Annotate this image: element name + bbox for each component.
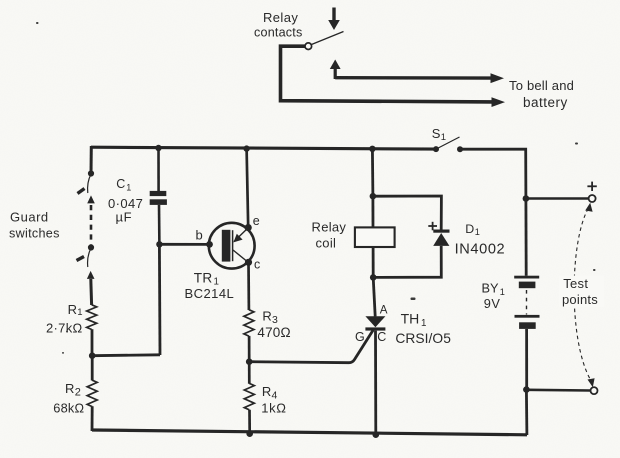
D1 cathode bar xyxy=(433,230,449,233)
svg-text:D: D xyxy=(465,222,474,236)
resistor R3 xyxy=(244,310,254,336)
R3 label xyxy=(257,309,290,341)
TR1 emitter arrow (PNP) xyxy=(233,234,242,243)
svg-text:C: C xyxy=(116,177,125,191)
svg-text:Guard: Guard xyxy=(10,210,49,225)
svg-text:BY: BY xyxy=(482,281,500,296)
svg-text:68kΩ: 68kΩ xyxy=(53,400,84,415)
wire junction to R4 xyxy=(248,362,251,384)
node lower test junction xyxy=(523,386,530,393)
node base junction xyxy=(156,241,162,247)
arrowhead up (switch 2) xyxy=(87,271,95,279)
gate wire to thyristor xyxy=(249,330,373,363)
svg-text:b: b xyxy=(196,228,203,243)
svg-text:switches: switches xyxy=(9,227,60,241)
node on top rail (emitter branch) xyxy=(243,145,249,151)
TH1 cathode bar xyxy=(365,327,385,330)
cathode wire to bottom rail xyxy=(374,331,377,435)
svg-text:1: 1 xyxy=(500,287,505,297)
wire C1 to base node xyxy=(158,205,161,244)
label Relay coil xyxy=(312,220,347,251)
wire from contact to left corner and down to lower arrow line xyxy=(281,46,494,102)
arc arrowhead bottom xyxy=(588,378,595,387)
S1 left terminal dot xyxy=(433,146,439,152)
wire R2 to bottom rail xyxy=(91,406,94,431)
R2 label xyxy=(53,381,84,416)
arrowhead up (switch 1) xyxy=(87,195,95,203)
svg-text:R: R xyxy=(262,384,271,399)
guard switch 2 tick xyxy=(77,257,85,261)
D1 label xyxy=(455,222,506,258)
svg-text:1: 1 xyxy=(126,182,131,192)
svg-text:1: 1 xyxy=(475,227,480,237)
guard switch 2 terminal dot xyxy=(88,244,94,250)
battery long plate 1 xyxy=(514,276,539,279)
svg-text:R: R xyxy=(68,302,77,317)
plus mark at D1 xyxy=(428,222,437,231)
guard switch 1 blade xyxy=(88,174,91,193)
svg-text:1: 1 xyxy=(441,132,446,143)
svg-text:e: e xyxy=(253,214,260,228)
wire R1 junction to R2 xyxy=(91,356,94,381)
diode D1 triangle xyxy=(433,233,449,246)
resistor R4 xyxy=(244,383,254,409)
resistor R1 xyxy=(87,305,97,330)
label Relay contacts xyxy=(254,10,303,40)
wire node to coil xyxy=(371,196,374,227)
relay contact pivot circle xyxy=(305,43,312,50)
battery inter-cell dashed link xyxy=(526,290,528,315)
wire S1 to right corner and down xyxy=(460,149,526,198)
svg-text:TH: TH xyxy=(401,311,420,327)
node TH1 bottom rail junction xyxy=(373,431,380,438)
up arrow on bell line xyxy=(330,60,341,80)
svg-text:R: R xyxy=(65,381,74,396)
guard switch 1 terminal dot xyxy=(88,170,94,176)
base wire xyxy=(159,243,209,246)
S1 right terminal dot xyxy=(457,146,463,152)
relay contact blade xyxy=(312,32,344,45)
node R3/R4 junction xyxy=(246,358,253,365)
node coil/diode top junction xyxy=(370,193,377,200)
svg-text:A: A xyxy=(380,304,388,317)
svg-text:2: 2 xyxy=(75,387,81,399)
svg-text:contacts: contacts xyxy=(254,26,303,40)
test points dashed pointer arc xyxy=(574,209,590,381)
bottom rail xyxy=(92,430,527,435)
wire R4 to bottom rail xyxy=(248,410,251,434)
wire junction to C1 branch corner xyxy=(92,353,160,357)
BY1 label xyxy=(482,281,505,311)
svg-text:TR: TR xyxy=(194,271,213,286)
svg-text:1: 1 xyxy=(421,318,426,329)
+ test point circle xyxy=(589,195,596,202)
wire to R1 xyxy=(89,279,93,305)
node c terminal xyxy=(245,259,252,266)
arrowhead to battery line xyxy=(492,97,506,107)
scan specks xyxy=(36,22,596,354)
label Test points xyxy=(559,276,604,308)
actuation down-arrow xyxy=(328,8,340,31)
capacitor C1 plates xyxy=(150,191,167,196)
wire rail to coil top node xyxy=(371,149,374,196)
plus mark at test point xyxy=(587,182,596,191)
wire junction to bottom rail corner xyxy=(525,390,528,435)
svg-text:1kΩ: 1kΩ xyxy=(261,400,286,415)
wire base node down to corner xyxy=(158,244,161,355)
TR1 emitter line xyxy=(234,228,248,242)
node on top rail xyxy=(369,146,375,152)
svg-text:IN4002: IN4002 xyxy=(455,242,506,258)
svg-text:points: points xyxy=(562,292,598,307)
wire to + test point xyxy=(526,197,589,200)
arrowhead to bell xyxy=(491,73,505,83)
battery short plate 2 xyxy=(519,322,536,329)
battery long plate 2 xyxy=(515,315,540,318)
label To bell and battery xyxy=(509,78,574,110)
wire battery to lower junction xyxy=(525,329,528,390)
svg-text:1: 1 xyxy=(77,307,82,318)
svg-text:To bell and: To bell and xyxy=(509,78,574,93)
S1 label xyxy=(432,126,446,143)
wire top-left corner down xyxy=(90,146,93,174)
node coil/diode bottom junction xyxy=(370,274,377,281)
battery short plate 1 xyxy=(519,282,536,289)
svg-text:Test: Test xyxy=(563,276,588,291)
svg-text:µF: µF xyxy=(116,210,133,225)
wire to lower test point xyxy=(526,388,590,391)
node e terminal xyxy=(245,224,252,231)
guard switch 2 blade xyxy=(88,248,91,267)
svg-text:3: 3 xyxy=(272,314,278,326)
lower test point circle xyxy=(591,387,598,394)
TR1 collector line xyxy=(233,250,248,263)
svg-text:coil: coil xyxy=(316,236,337,251)
node positive rail junction xyxy=(523,195,530,202)
svg-text:S: S xyxy=(432,126,441,141)
svg-text:G: G xyxy=(355,330,365,344)
TR1 base thin line xyxy=(232,230,234,261)
wire R1 to junction xyxy=(91,329,94,357)
node on top rail xyxy=(155,145,161,151)
wire c to R3 xyxy=(247,262,250,310)
wire to bell xyxy=(335,76,492,80)
svg-text:Relay: Relay xyxy=(312,220,347,235)
top rail xyxy=(91,147,436,149)
C1 label xyxy=(108,177,143,224)
node R4 bottom rail junction xyxy=(246,430,253,437)
resistor R2 xyxy=(87,380,97,406)
svg-text:battery: battery xyxy=(523,95,568,110)
svg-text:9V: 9V xyxy=(484,296,501,311)
S1 blade xyxy=(436,137,460,149)
TH1 label xyxy=(395,311,451,346)
wire diode to bottom junction xyxy=(373,246,441,278)
TR1 envelope circle xyxy=(209,223,255,269)
node b terminal xyxy=(206,241,213,248)
svg-text:BC214L: BC214L xyxy=(185,286,235,301)
wire junction to battery xyxy=(525,199,528,276)
svg-text:R: R xyxy=(262,309,271,324)
relay coil box xyxy=(355,227,395,247)
TH1 triangle xyxy=(365,316,385,327)
svg-text:Relay: Relay xyxy=(263,10,298,25)
svg-text:c: c xyxy=(254,258,260,272)
wire rail to e xyxy=(247,149,249,228)
R4 label xyxy=(261,384,286,415)
wire coil to bottom junction xyxy=(372,247,375,277)
dashed series link xyxy=(90,205,93,245)
TR1 label xyxy=(185,271,235,302)
TR1 base bar xyxy=(222,230,231,262)
wire rail to C1 xyxy=(157,148,160,191)
node R1/R2 junction xyxy=(89,352,96,359)
wire R3 to junction xyxy=(248,336,251,362)
R1 value label xyxy=(46,302,83,336)
anode wire xyxy=(373,277,375,316)
svg-text:CRSI/O5: CRSI/O5 xyxy=(395,331,451,346)
guard switch 1 tick xyxy=(78,189,85,194)
label Guard switches xyxy=(9,210,60,241)
svg-text:2·7kΩ: 2·7kΩ xyxy=(46,321,83,336)
svg-text:470Ω: 470Ω xyxy=(257,325,290,340)
svg-text:C: C xyxy=(377,330,386,344)
wire top junction to diode xyxy=(373,196,442,230)
arc arrowhead top xyxy=(585,203,592,212)
